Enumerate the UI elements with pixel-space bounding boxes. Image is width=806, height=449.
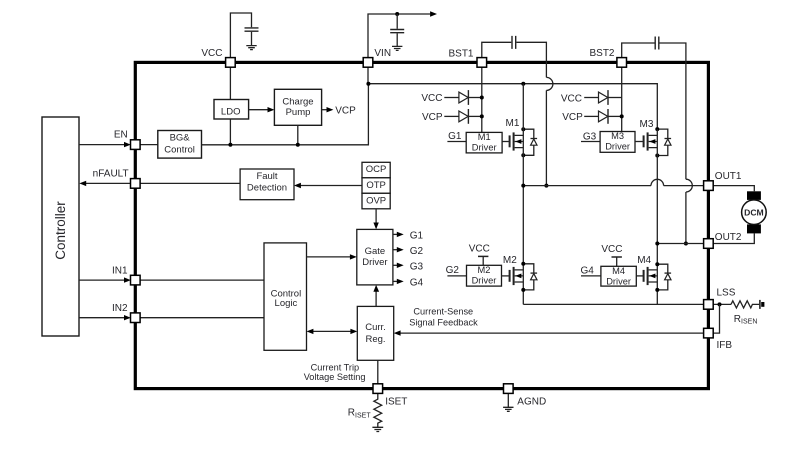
wire VCP diode lead sec2 xyxy=(584,115,598,117)
block Control Logic xyxy=(264,243,307,350)
diode body M2 xyxy=(523,264,537,290)
wire EN pin to BG xyxy=(140,144,158,146)
svg-text:VCP: VCP xyxy=(422,112,443,123)
svg-text:Pump: Pump xyxy=(286,107,311,118)
svg-text:Gate: Gate xyxy=(365,246,386,257)
svg-text:VCC: VCC xyxy=(469,244,490,255)
node CP tap xyxy=(296,143,300,147)
pin VIN xyxy=(363,48,391,67)
wire LDO bottom tap xyxy=(229,119,231,145)
wire LSS tap down to IFB xyxy=(713,304,719,333)
node LSS tap xyxy=(718,302,722,306)
svg-text:G1: G1 xyxy=(410,231,424,242)
wire LSS inside xyxy=(523,303,703,305)
wire OTP stack to fault detection arrow xyxy=(300,185,362,187)
block Gate Driver xyxy=(357,229,393,285)
svg-text:Logic: Logic xyxy=(275,298,298,309)
svg-text:Reg.: Reg. xyxy=(365,334,385,345)
svg-text:G1: G1 xyxy=(448,131,462,142)
pin OUT1 xyxy=(704,171,742,190)
pin BST1 xyxy=(448,48,486,67)
svg-text:Charge: Charge xyxy=(282,96,313,107)
wire OUT2 xyxy=(657,243,703,245)
block BG&Control xyxy=(158,131,202,159)
wire BG to VIN rail xyxy=(202,84,369,145)
node VCP diode sec2 xyxy=(620,114,624,118)
wire IN1 controller to pin xyxy=(79,279,125,281)
wire bootstrap cap to OUT1 node with hop xyxy=(516,42,546,185)
svg-text:VCC: VCC xyxy=(561,94,582,105)
svg-text:OVP: OVP xyxy=(366,196,386,207)
resistor RISET xyxy=(374,399,382,427)
Controller xyxy=(42,117,79,336)
transistor M4 xyxy=(636,267,657,285)
svg-text:VCC: VCC xyxy=(201,48,222,59)
node M1 drain xyxy=(521,127,525,131)
svg-text:G4: G4 xyxy=(410,278,424,289)
svg-text:LDO: LDO xyxy=(221,106,241,117)
svg-text:VCC: VCC xyxy=(421,93,442,104)
svg-text:Voltage Setting: Voltage Setting xyxy=(304,372,366,382)
svg-text:M1: M1 xyxy=(506,118,520,129)
svg-text:M3: M3 xyxy=(640,119,654,130)
wire IN1 pin to control logic xyxy=(140,279,264,281)
svg-text:Driver: Driver xyxy=(472,143,497,153)
pin EN xyxy=(114,130,140,150)
node VCP diode sec1 xyxy=(480,114,484,118)
block M2 driver xyxy=(467,265,502,286)
wire IFB inside to Curr Reg arrow xyxy=(400,332,704,334)
wire IN2 controller to pin xyxy=(79,317,125,319)
block OCP xyxy=(362,162,390,178)
wire control logic to curr reg double arrow xyxy=(313,330,352,332)
node VIN rail junction xyxy=(366,82,370,86)
svg-text:OTP: OTP xyxy=(366,180,386,191)
wire ISET pin to RISET xyxy=(377,393,379,399)
svg-text:IN2: IN2 xyxy=(112,303,128,314)
wire G1 output xyxy=(393,233,398,235)
wire LDO to Charge Pump arrow xyxy=(249,109,268,111)
wire EN controller to pin xyxy=(79,144,125,146)
transistor M2 xyxy=(502,267,524,285)
ground VIN cap xyxy=(392,46,402,50)
capacitor VCC bypass xyxy=(245,28,259,31)
svg-text:BST2: BST2 xyxy=(589,48,614,59)
block OVP xyxy=(362,193,390,209)
wire G3 lead xyxy=(581,141,600,143)
node half bridge 1 rail tap xyxy=(521,82,525,86)
svg-text:Controller: Controller xyxy=(53,201,68,260)
wire OUT1 to motor xyxy=(713,186,754,192)
transistor M3 xyxy=(635,132,657,150)
node VIN cap junction xyxy=(395,12,399,16)
svg-text:OUT1: OUT1 xyxy=(715,171,742,182)
ground AGND xyxy=(503,407,513,411)
wire VCC pin to LDO xyxy=(229,67,231,99)
wire G4 lead xyxy=(581,275,601,277)
wire BST2 pin to bootstrap cap xyxy=(622,43,655,58)
svg-text:Control: Control xyxy=(164,144,195,155)
capacitor bootstrap BST2 xyxy=(655,37,659,50)
svg-text:M3: M3 xyxy=(611,131,624,141)
node BST2 return on OUT2 xyxy=(684,242,688,246)
wire OUT2 to motor xyxy=(713,233,754,243)
pin ISET xyxy=(373,384,407,408)
wire curr reg to ISET pin xyxy=(377,360,379,384)
svg-text:M4: M4 xyxy=(612,266,625,276)
svg-text:Driver: Driver xyxy=(605,142,630,152)
wire VCC diode lead sec1 xyxy=(444,97,459,99)
svg-text:Curr.: Curr. xyxy=(365,322,386,333)
wire cap to ground xyxy=(251,32,253,45)
diode VCC sec1 xyxy=(459,92,468,103)
block LDO xyxy=(214,100,249,120)
block M1 driver xyxy=(466,132,502,153)
node LDO tap xyxy=(228,143,232,147)
svg-text:VIN: VIN xyxy=(374,48,391,59)
motor DCM xyxy=(742,191,767,233)
node OUT1 half bridge tap xyxy=(521,184,525,188)
wire control logic to gate driver arrow xyxy=(307,256,351,258)
svg-text:M2: M2 xyxy=(503,255,517,266)
wire AGND pin to ground xyxy=(507,393,509,407)
node M1 source xyxy=(521,153,525,157)
wire curr reg to gate driver arrow xyxy=(375,292,377,307)
wire G2 lead xyxy=(447,275,466,277)
wire Charge Pump bottom tap xyxy=(297,125,299,145)
wire VCP diode lead sec1 xyxy=(444,115,459,117)
svg-text:M2: M2 xyxy=(478,265,491,275)
wire OVP to gate driver arrow xyxy=(375,209,377,223)
capacitor VIN bypass xyxy=(396,14,398,29)
block Fault Detection xyxy=(240,169,294,200)
ground RISET xyxy=(372,427,383,431)
svg-text:RISET: RISET xyxy=(348,408,372,420)
svg-text:DCM: DCM xyxy=(744,207,764,217)
svg-text:Signal Feedback: Signal Feedback xyxy=(409,317,478,327)
block OTP xyxy=(362,178,390,194)
svg-text:G4: G4 xyxy=(580,265,594,276)
svg-text:Current-Sense: Current-Sense xyxy=(413,306,473,316)
diode body M1 xyxy=(523,129,537,155)
supply bar VCC M4 xyxy=(612,256,622,258)
pin VCC xyxy=(201,48,235,67)
wire half bridge 2 vertical xyxy=(656,129,658,304)
svg-text:G3: G3 xyxy=(410,262,424,273)
wire VIN pin to external cap and supply xyxy=(368,14,430,58)
svg-text:nFAULT: nFAULT xyxy=(93,169,129,180)
pin IFB xyxy=(704,328,733,351)
wire BST2 pin down to M3 driver xyxy=(621,67,623,131)
capacitor bootstrap BST1 xyxy=(512,36,516,49)
block M4 driver xyxy=(601,266,636,286)
wire OUT1 with hop xyxy=(523,185,703,187)
pin IN1 xyxy=(112,266,140,285)
wire G4 output xyxy=(393,280,398,282)
wire G1 lead xyxy=(447,141,466,143)
svg-text:Fault: Fault xyxy=(256,171,277,182)
wire VIN pin down xyxy=(367,67,369,84)
svg-text:Detection: Detection xyxy=(247,182,287,193)
wire IN2 pin to control logic xyxy=(140,317,264,319)
pin nFAULT xyxy=(93,169,140,189)
pin AGND xyxy=(504,384,514,394)
svg-text:Current Trip: Current Trip xyxy=(311,363,360,373)
svg-text:RISEN: RISEN xyxy=(734,314,758,326)
node BST1 return on OUT1 xyxy=(544,184,548,188)
svg-text:Driver: Driver xyxy=(606,277,631,287)
svg-text:AGND: AGND xyxy=(517,396,546,407)
transistor M1 xyxy=(502,132,523,150)
svg-text:Driver: Driver xyxy=(362,257,387,268)
wire G2 output xyxy=(393,249,398,251)
diode VCC sec2 xyxy=(599,92,608,103)
svg-text:BST1: BST1 xyxy=(448,48,473,59)
node M3 drain xyxy=(655,127,659,131)
svg-text:VCP: VCP xyxy=(562,112,583,123)
svg-text:IN1: IN1 xyxy=(112,266,128,277)
IC boundary xyxy=(135,62,708,388)
wire bootstrap cap 2 to OUT2 node with hop over OUT1 xyxy=(660,43,686,244)
ground VCC cap xyxy=(246,46,256,50)
diode body M4 xyxy=(657,264,671,290)
svg-text:OUT2: OUT2 xyxy=(715,232,742,243)
wire VCC pin to external cap xyxy=(230,13,251,58)
pin OUT2 xyxy=(704,232,742,248)
block M3 driver xyxy=(600,132,635,153)
node M2 source xyxy=(521,288,525,292)
node VCC diode sec1 xyxy=(480,96,484,100)
resistor RISEN xyxy=(731,301,759,308)
diode body M3 xyxy=(657,129,671,155)
wire nFAULT xyxy=(86,182,241,184)
pin IN2 xyxy=(112,303,140,322)
svg-text:OCP: OCP xyxy=(366,164,387,175)
svg-text:G2: G2 xyxy=(446,265,460,276)
node M2 drain xyxy=(521,262,525,266)
diode VCP sec1 xyxy=(459,111,468,122)
wire VIN rail xyxy=(368,84,657,129)
wire BST1 pin to bootstrap cap xyxy=(482,42,512,57)
wire G3 output xyxy=(393,264,398,266)
wire Charge Pump to VCP arrow xyxy=(322,109,327,111)
node M3 source xyxy=(655,154,659,158)
svg-text:M4: M4 xyxy=(637,255,651,266)
node OUT2 half bridge tap xyxy=(655,242,659,246)
svg-text:VCC: VCC xyxy=(601,244,622,255)
wire VCC diode lead sec2 xyxy=(584,97,598,99)
svg-text:G2: G2 xyxy=(410,246,424,257)
diode VCP sec2 xyxy=(599,111,608,122)
svg-text:M1: M1 xyxy=(478,132,491,142)
wire half bridge 1 vertical xyxy=(522,84,524,305)
block Curr Reg xyxy=(357,306,393,360)
svg-text:VCP: VCP xyxy=(335,105,356,116)
pin BST2 xyxy=(589,48,626,67)
svg-text:Driver: Driver xyxy=(472,276,497,286)
ground tap RISEN xyxy=(759,300,761,309)
node M4 source xyxy=(655,288,659,292)
wire BST1 pin down to M1 driver xyxy=(481,67,483,132)
svg-text:IFB: IFB xyxy=(717,340,733,351)
svg-text:BG&: BG& xyxy=(170,132,191,143)
wire LSS to RISEN xyxy=(713,303,731,305)
supply bar VCC M2 xyxy=(478,255,488,257)
pin LSS xyxy=(704,288,736,310)
block Charge Pump xyxy=(274,89,321,125)
svg-text:ISET: ISET xyxy=(385,396,407,407)
node M4 drain xyxy=(655,262,659,266)
svg-text:LSS: LSS xyxy=(717,288,736,299)
svg-text:EN: EN xyxy=(114,130,128,141)
